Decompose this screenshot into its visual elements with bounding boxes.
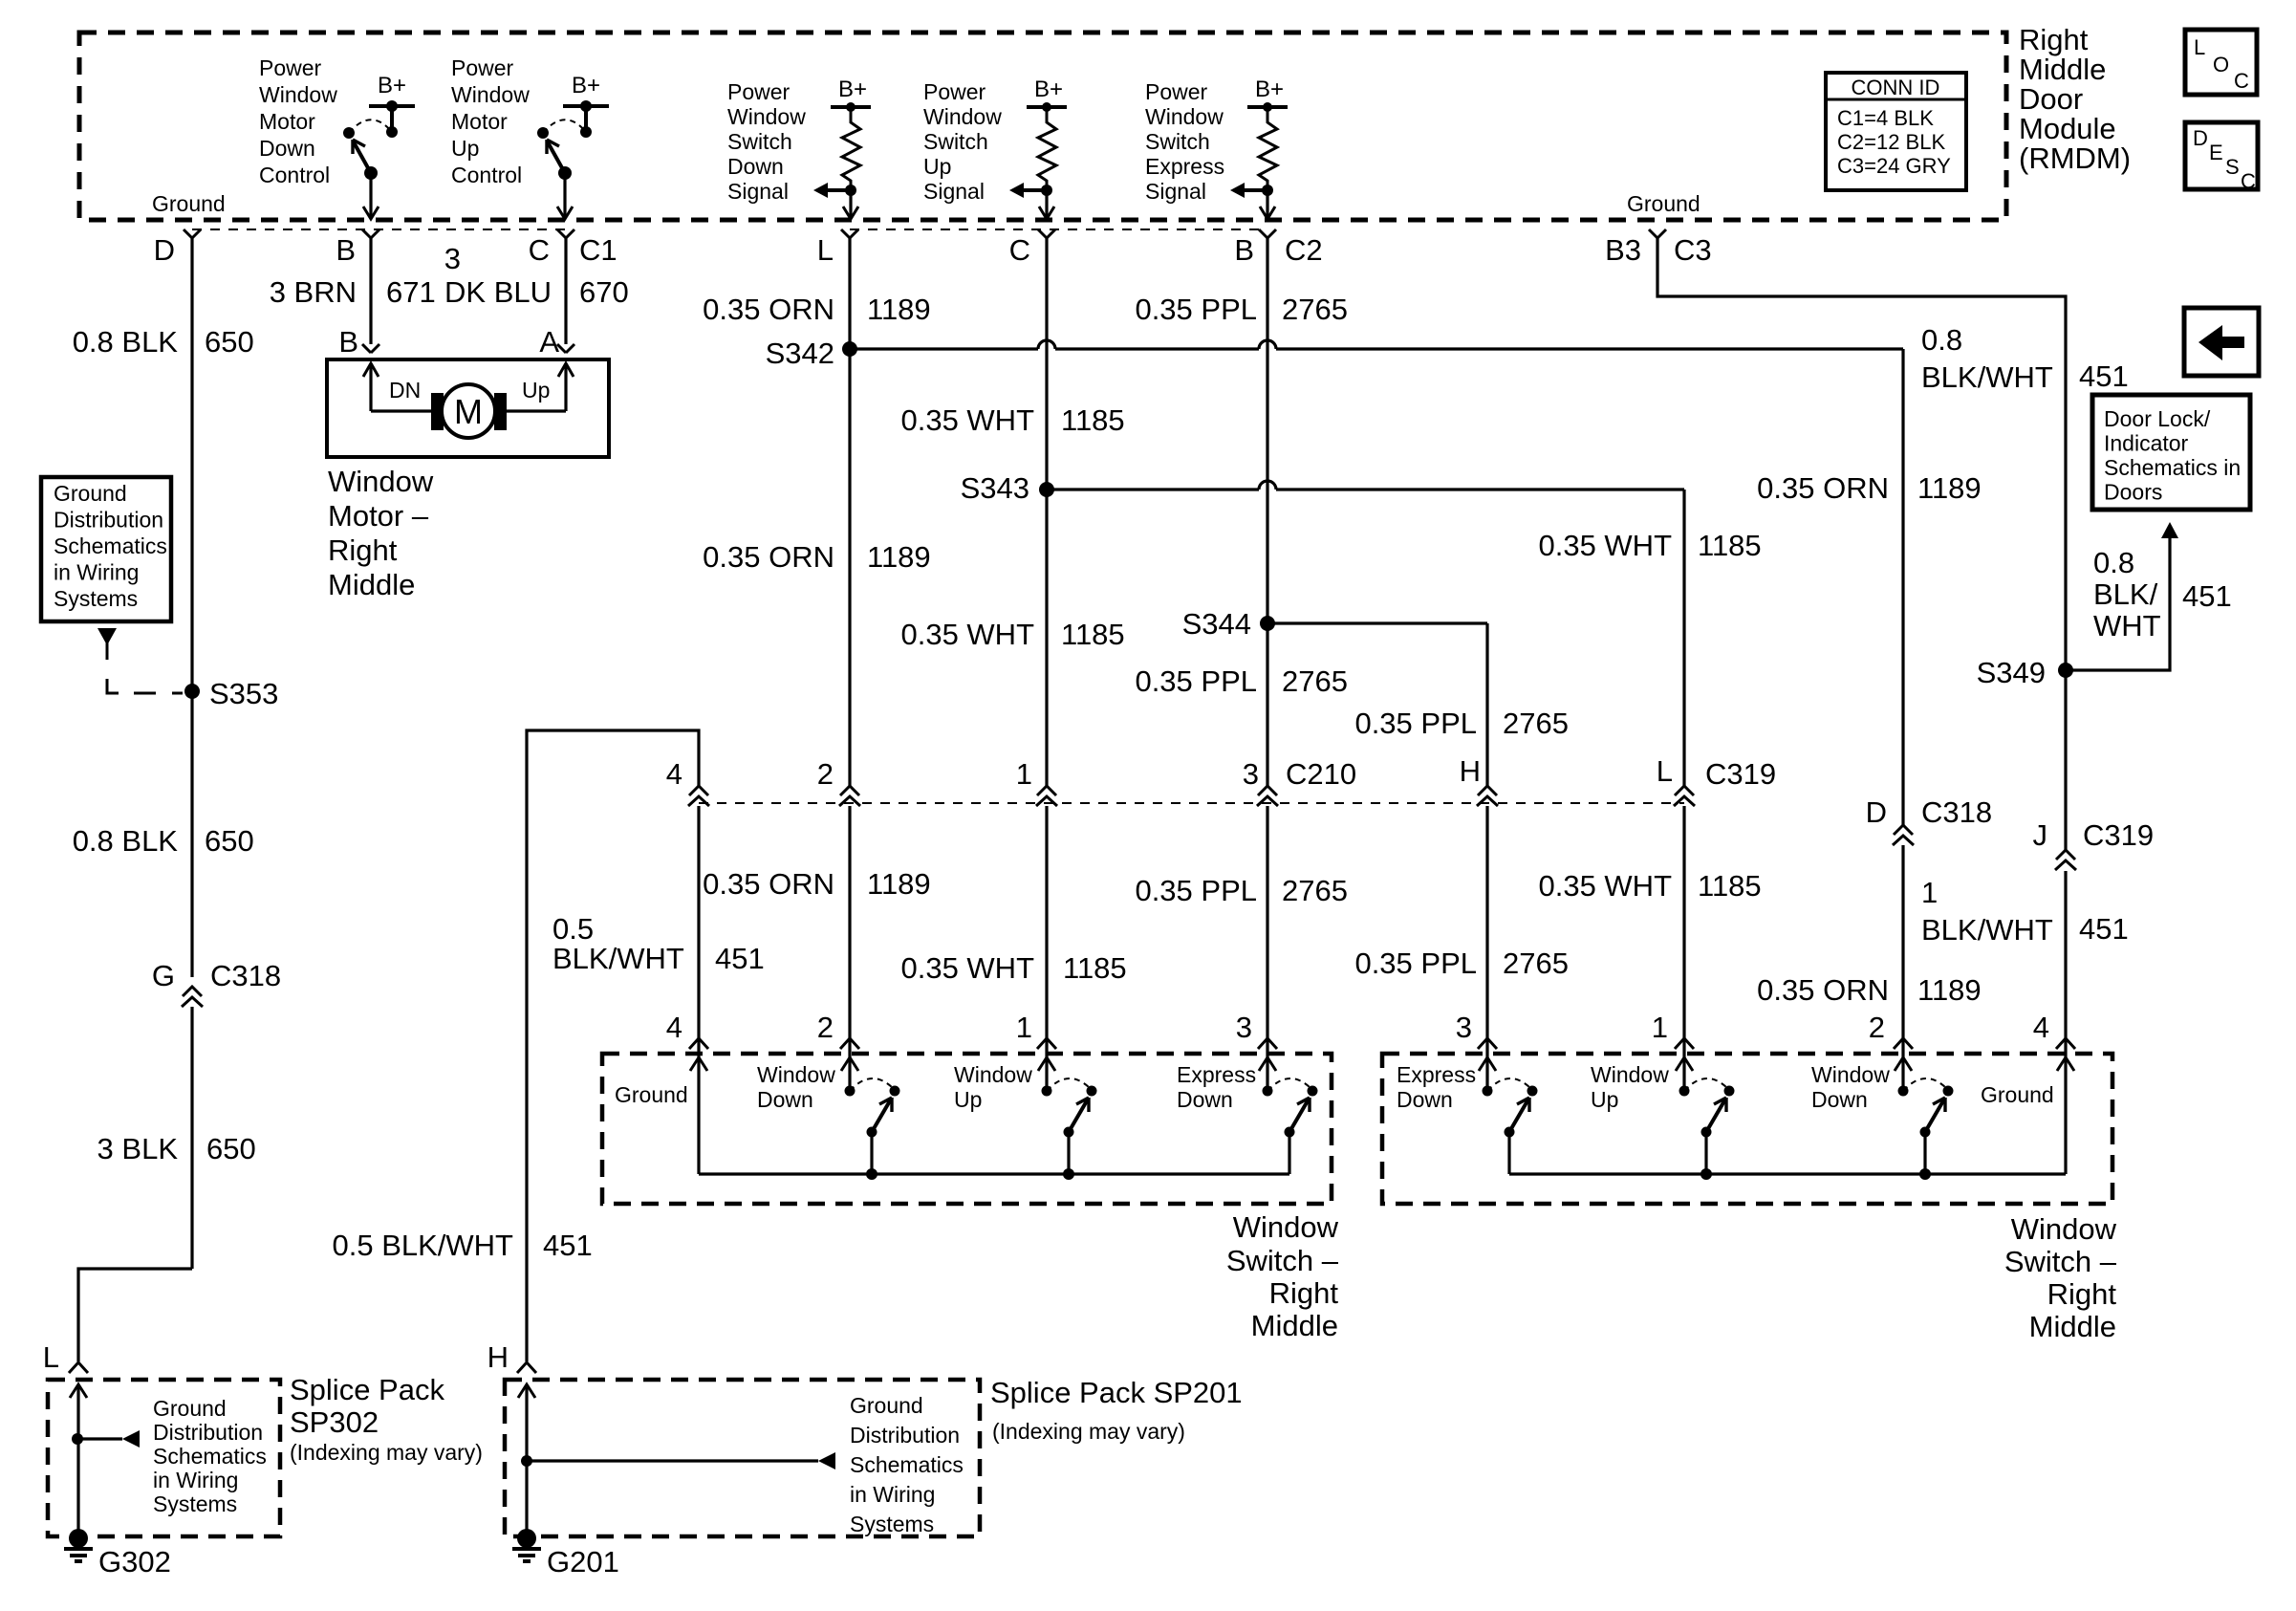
wire L C319 lower xyxy=(1682,806,1685,1061)
svg-text:0.35 WHT: 0.35 WHT xyxy=(1538,869,1672,903)
svg-text:Right: Right xyxy=(2019,23,2089,56)
svg-text:0.8: 0.8 xyxy=(2093,546,2134,579)
pin H of C319 xyxy=(1460,754,1498,806)
wire L C319 1185 xyxy=(1682,490,1685,786)
svg-text:Ground: Ground xyxy=(1981,1082,2054,1107)
motor internal wiring xyxy=(363,363,574,411)
svg-text:4: 4 xyxy=(2033,1011,2049,1044)
wire S344 branch xyxy=(1267,621,1487,624)
pin L of C2 xyxy=(817,229,858,267)
svg-text:Schematics: Schematics xyxy=(850,1452,964,1477)
svg-text:1185: 1185 xyxy=(1063,951,1127,985)
label 0.35 ORN 1189 (row C) xyxy=(703,540,931,574)
svg-text:C: C xyxy=(529,233,550,267)
svg-text:2765: 2765 xyxy=(1282,664,1348,698)
svg-text:451: 451 xyxy=(543,1229,593,1262)
svg-text:Window: Window xyxy=(1145,104,1224,129)
svg-text:Window: Window xyxy=(2011,1212,2117,1246)
svg-text:Window: Window xyxy=(1591,1062,1669,1087)
wire 451 left lower xyxy=(697,806,700,1061)
svg-text:Express: Express xyxy=(1145,154,1224,179)
svg-text:1189: 1189 xyxy=(1917,973,1982,1007)
label Ground (right) xyxy=(1627,191,1700,216)
svg-text:2: 2 xyxy=(817,1011,834,1044)
svg-text:0.35 WHT: 0.35 WHT xyxy=(900,951,1034,985)
pin 2 of C210 xyxy=(817,757,860,806)
svg-text:C319: C319 xyxy=(2083,818,2154,852)
svg-text:Control: Control xyxy=(451,163,522,187)
svg-text:C2: C2 xyxy=(1285,233,1323,267)
svg-text:C: C xyxy=(1009,233,1030,267)
svg-text:0.35 PPL: 0.35 PPL xyxy=(1135,293,1257,326)
svg-text:Systems: Systems xyxy=(850,1512,934,1536)
label 0.8 BLK 650 (upper) xyxy=(73,325,254,359)
svg-text:Signal: Signal xyxy=(923,179,985,204)
switch Express Down (right box) xyxy=(1479,1057,1538,1174)
switch SW1 Power Window Motor Down Control xyxy=(343,73,415,219)
window motor box xyxy=(327,359,609,457)
svg-text:C210: C210 xyxy=(1286,757,1356,791)
wire D C318 lower xyxy=(1901,845,1904,1061)
svg-text:Schematics: Schematics xyxy=(153,1444,267,1469)
svg-text:1185: 1185 xyxy=(1061,618,1125,651)
wire B 2765 lower xyxy=(1266,806,1268,1061)
svg-text:0.35 PPL: 0.35 PPL xyxy=(1354,707,1477,740)
label Right Middle Door Module (RMDM) xyxy=(2019,23,2131,175)
label Window Down (left box) xyxy=(757,1062,835,1112)
label Express Down (left box) xyxy=(1177,1062,1256,1112)
connector J C319 xyxy=(2033,818,2155,870)
pin 3 of window switch right xyxy=(1456,1011,1497,1049)
svg-text:1185: 1185 xyxy=(1698,869,1762,903)
label Window Switch - Right Middle (right) xyxy=(2004,1212,2117,1343)
svg-text:Ground: Ground xyxy=(850,1393,923,1418)
wire C 1185 upper xyxy=(1045,238,1048,786)
svg-text:Ground: Ground xyxy=(153,1396,227,1421)
svg-text:BLK/WHT: BLK/WHT xyxy=(1921,360,2053,394)
CONN ID table xyxy=(1826,73,1966,190)
svg-text:Down: Down xyxy=(1811,1087,1868,1112)
svg-text:BLK/: BLK/ xyxy=(2093,577,2158,611)
label 0.35 WHT 1185 (row D) xyxy=(900,618,1124,651)
label Up xyxy=(522,378,550,403)
svg-text:L: L xyxy=(2194,35,2205,59)
svg-text:M: M xyxy=(454,392,483,431)
svg-text:B: B xyxy=(338,325,358,359)
svg-text:D: D xyxy=(2193,126,2208,150)
svg-text:Motor: Motor xyxy=(451,109,508,134)
pin B3 of C3 xyxy=(1605,229,1712,267)
node S343 xyxy=(961,471,1054,505)
svg-text:3: 3 xyxy=(444,242,461,275)
label 0.35 ORN 1189 (row A) xyxy=(703,293,931,326)
pin A of motor xyxy=(539,325,574,359)
wire L 1189 lower xyxy=(848,806,851,1061)
svg-text:C318: C318 xyxy=(210,959,281,992)
svg-text:in Wiring: in Wiring xyxy=(850,1482,935,1507)
svg-text:0.8: 0.8 xyxy=(1921,323,1962,357)
svg-text:Indicator: Indicator xyxy=(2104,431,2189,456)
svg-text:Right: Right xyxy=(1269,1276,1339,1310)
svg-text:650: 650 xyxy=(205,824,254,858)
bus wire (left box) xyxy=(699,1172,1289,1175)
svg-text:Schematics: Schematics xyxy=(54,533,167,558)
svg-text:Switch –: Switch – xyxy=(1226,1244,1339,1277)
svg-text:0.35 WHT: 0.35 WHT xyxy=(900,403,1034,437)
svg-text:3: 3 xyxy=(1456,1011,1472,1044)
dashed reference line to S353 xyxy=(107,642,183,693)
switch Window Down (right box) xyxy=(1895,1057,1954,1180)
svg-text:Window: Window xyxy=(1233,1210,1339,1244)
svg-text:650: 650 xyxy=(205,325,254,359)
svg-text:0.35 PPL: 0.35 PPL xyxy=(1135,664,1257,698)
svg-text:B+: B+ xyxy=(378,73,406,98)
svg-text:Up: Up xyxy=(1591,1087,1618,1112)
svg-text:Switch: Switch xyxy=(923,129,988,154)
svg-text:G201: G201 xyxy=(547,1545,619,1578)
Splice Pack SP201 box xyxy=(505,1380,980,1536)
node S342 xyxy=(766,337,857,370)
label 0.35 ORN 1189 (right upper) xyxy=(1757,471,1982,505)
svg-text:2: 2 xyxy=(817,757,834,791)
label DN xyxy=(389,378,421,403)
pin L of C319 xyxy=(1657,754,1776,806)
svg-text:DK BLU: DK BLU xyxy=(444,275,552,309)
svg-text:3: 3 xyxy=(1243,757,1259,791)
Door Lock Indicator Schematics box xyxy=(2092,395,2250,510)
label Power Window Switch Express Signal xyxy=(1145,79,1224,204)
label Window Up (left box) xyxy=(954,1062,1032,1112)
ground pin arrow (left box) xyxy=(690,1057,707,1174)
svg-text:Motor –: Motor – xyxy=(328,499,429,533)
svg-text:0.35 ORN: 0.35 ORN xyxy=(703,293,834,326)
wire S349 branch to door lock xyxy=(2066,534,2170,670)
pin 3 of C210 xyxy=(1243,757,1356,806)
connector row thin dashed C210/C319 xyxy=(699,802,1684,804)
svg-text:1185: 1185 xyxy=(1061,403,1125,437)
svg-text:C3: C3 xyxy=(1674,233,1712,267)
junction dot SP201 xyxy=(521,1452,835,1469)
wire L 1189 upper xyxy=(848,238,851,786)
svg-text:Power: Power xyxy=(727,79,791,104)
svg-text:Down: Down xyxy=(259,136,315,161)
wire H 2765 xyxy=(1485,623,1488,786)
pin 3 of window switch xyxy=(1236,1011,1277,1049)
pin 1 of window switch right xyxy=(1652,1011,1694,1049)
label Window Switch - Right Middle (left) xyxy=(1226,1210,1339,1342)
wire D ground lower xyxy=(190,1007,193,1269)
Window Switch Right Middle box (left) xyxy=(602,1054,1332,1204)
svg-text:Module: Module xyxy=(2019,112,2116,145)
svg-text:Signal: Signal xyxy=(1145,179,1206,204)
label Power Window Switch Down Signal xyxy=(727,79,806,204)
svg-text:Control: Control xyxy=(259,163,330,187)
label Ground (right box) xyxy=(1981,1082,2054,1107)
bus wire (right box) xyxy=(1509,1172,2066,1175)
svg-text:Ground: Ground xyxy=(54,481,127,506)
svg-text:C318: C318 xyxy=(1921,795,1992,829)
svg-text:2765: 2765 xyxy=(1503,947,1569,980)
junction dot SP302 xyxy=(72,1430,140,1448)
switch Express Down (left box) xyxy=(1259,1057,1318,1174)
svg-text:BLK/WHT: BLK/WHT xyxy=(552,942,684,975)
label 0.35 WHT 1185 (row B) xyxy=(900,403,1124,437)
svg-text:S349: S349 xyxy=(1977,656,2046,689)
svg-text:WHT: WHT xyxy=(2093,609,2161,642)
label Power Window Switch Up Signal xyxy=(923,79,1002,204)
label Ground Distribution Schematics in SP201 xyxy=(850,1393,964,1536)
svg-text:C1: C1 xyxy=(579,233,617,267)
switch Window Down (left box) xyxy=(841,1057,900,1180)
pin D of C1 xyxy=(154,229,201,267)
wire H 2765 lower xyxy=(1485,806,1488,1061)
svg-text:0.8 BLK: 0.8 BLK xyxy=(73,325,179,359)
svg-text:H: H xyxy=(1460,754,1481,788)
svg-text:S: S xyxy=(2225,155,2240,179)
wire inside SP302 xyxy=(70,1384,87,1538)
label Ground (left box) xyxy=(615,1082,688,1107)
svg-text:S342: S342 xyxy=(766,337,834,370)
svg-text:H: H xyxy=(487,1340,509,1374)
svg-text:0.8 BLK: 0.8 BLK xyxy=(73,824,179,858)
svg-text:1: 1 xyxy=(1652,1011,1668,1044)
label 0.35 PPL 2765 (row F) xyxy=(1135,874,1348,907)
label 0.35 PPL 2765 (H upper) xyxy=(1354,707,1569,740)
connector D C318 xyxy=(1866,795,1993,845)
wire D C318 1189 xyxy=(1901,349,1904,825)
svg-text:Switch –: Switch – xyxy=(2004,1245,2117,1278)
svg-text:Middle: Middle xyxy=(1251,1309,1338,1342)
svg-text:B+: B+ xyxy=(1255,76,1284,102)
svg-text:(RMDM): (RMDM) xyxy=(2019,142,2131,175)
svg-text:B+: B+ xyxy=(1034,76,1063,102)
svg-text:Window: Window xyxy=(1811,1062,1890,1087)
svg-text:B+: B+ xyxy=(838,76,867,102)
svg-text:Door Lock/: Door Lock/ xyxy=(2104,406,2211,431)
svg-text:Window: Window xyxy=(259,82,337,107)
svg-text:Down: Down xyxy=(1177,1087,1233,1112)
label Window Motor - Right Middle xyxy=(328,465,434,601)
Ground Distribution Schematics box (top left) xyxy=(41,477,171,621)
svg-text:Ground: Ground xyxy=(152,191,226,216)
pin 2 of window switch right xyxy=(1869,1011,1913,1049)
svg-text:Window: Window xyxy=(727,104,806,129)
Splice Pack SP302 box xyxy=(48,1380,280,1536)
svg-text:Window: Window xyxy=(954,1062,1032,1087)
label Ground (left) xyxy=(152,191,226,216)
label Splice Pack SP201 xyxy=(990,1376,1243,1444)
label 3 BLK 650 xyxy=(97,1132,256,1165)
svg-text:C: C xyxy=(2234,69,2249,93)
svg-text:Down: Down xyxy=(757,1087,813,1112)
svg-text:E: E xyxy=(2209,141,2223,164)
svg-text:D: D xyxy=(154,233,175,267)
svg-text:SP302: SP302 xyxy=(290,1405,379,1439)
label 0.35 PPL 2765 (H lower) xyxy=(1354,947,1569,980)
svg-text:in Wiring: in Wiring xyxy=(54,560,139,585)
wire inside SP201 xyxy=(518,1384,535,1538)
wire B 2765 upper xyxy=(1266,238,1268,786)
switch Window Up (right box) xyxy=(1676,1057,1735,1180)
svg-text:Door: Door xyxy=(2019,82,2083,116)
label 0.35 ORN 1189 (row F) xyxy=(703,867,931,901)
svg-text:J: J xyxy=(2033,818,2048,852)
label 3 BRN 671 xyxy=(270,275,436,309)
reference triangle below box xyxy=(97,628,117,645)
svg-text:Right: Right xyxy=(328,533,398,567)
svg-text:(Indexing may vary): (Indexing may vary) xyxy=(992,1419,1185,1444)
pin 1 of C210 xyxy=(1016,757,1057,806)
svg-text:B: B xyxy=(336,233,356,267)
svg-text:Signal: Signal xyxy=(727,179,789,204)
svg-text:DN: DN xyxy=(389,378,421,403)
svg-text:0.35 PPL: 0.35 PPL xyxy=(1354,947,1477,980)
svg-text:1189: 1189 xyxy=(867,293,931,326)
svg-text:451: 451 xyxy=(2079,359,2129,393)
node S344 xyxy=(1182,607,1275,641)
svg-text:0.35 PPL: 0.35 PPL xyxy=(1135,874,1257,907)
svg-text:1: 1 xyxy=(1921,876,1938,909)
svg-text:Systems: Systems xyxy=(54,586,138,611)
pin 4 of window switch xyxy=(666,1011,708,1049)
label 0.35 WHT 1185 (row F) xyxy=(900,951,1126,985)
svg-text:1: 1 xyxy=(1016,1011,1032,1044)
svg-text:0.5: 0.5 xyxy=(552,912,594,946)
svg-text:0.35 ORN: 0.35 ORN xyxy=(1757,973,1889,1007)
svg-text:C3=24 GRY: C3=24 GRY xyxy=(1837,154,1951,178)
back-arrow icon box xyxy=(2184,308,2259,376)
pin B of motor xyxy=(338,325,379,359)
label Splice Pack SP302 xyxy=(290,1373,483,1465)
svg-text:A: A xyxy=(539,325,559,359)
svg-text:3 BLK: 3 BLK xyxy=(97,1132,179,1165)
label Window Up (right box) xyxy=(1591,1062,1669,1112)
svg-text:671: 671 xyxy=(386,275,436,309)
pin C of C1 xyxy=(529,229,617,267)
svg-text:1189: 1189 xyxy=(1917,471,1982,505)
svg-text:Down: Down xyxy=(1397,1087,1453,1112)
ground pin arrow (right box) xyxy=(2057,1057,2074,1174)
ground G201 xyxy=(512,1529,619,1578)
motor M1 Window Motor xyxy=(431,384,507,438)
svg-text:Middle: Middle xyxy=(2029,1310,2116,1343)
switch Window Up (left box) xyxy=(1038,1057,1097,1180)
wire 670 to motor xyxy=(564,238,567,344)
svg-text:Down: Down xyxy=(727,154,784,179)
label Power Window Motor Up Control xyxy=(451,55,530,187)
connector row thin dashed C1 xyxy=(192,229,566,230)
label 1 BLK/WHT 451 xyxy=(1921,876,2129,947)
svg-text:Up: Up xyxy=(522,378,550,403)
wire 451 to switch xyxy=(2064,871,2067,1061)
svg-text:Window: Window xyxy=(328,465,434,498)
svg-text:G302: G302 xyxy=(98,1545,171,1578)
node S353 xyxy=(184,677,278,710)
LOC box xyxy=(2185,30,2257,95)
label 3 DK BLU 670 xyxy=(444,242,629,309)
svg-text:Switch: Switch xyxy=(1145,129,1210,154)
svg-text:650: 650 xyxy=(206,1132,256,1165)
svg-text:451: 451 xyxy=(2079,912,2129,946)
svg-text:L: L xyxy=(817,233,834,267)
svg-text:Distribution: Distribution xyxy=(153,1420,263,1445)
svg-text:Systems: Systems xyxy=(153,1491,237,1516)
svg-text:Up: Up xyxy=(923,154,951,179)
pin B of C1 xyxy=(336,229,379,267)
svg-text:C2=12 BLK: C2=12 BLK xyxy=(1837,130,1945,154)
svg-text:1189: 1189 xyxy=(867,867,931,901)
svg-text:3 BRN: 3 BRN xyxy=(270,275,357,309)
label Ground Distribution Schematics in SP302 xyxy=(153,1396,267,1516)
pin C of C2 xyxy=(1009,229,1055,267)
Window Switch Right Middle box (right) xyxy=(1382,1054,2112,1204)
svg-text:Power: Power xyxy=(923,79,986,104)
svg-text:0.35 WHT: 0.35 WHT xyxy=(1538,529,1672,562)
svg-text:2: 2 xyxy=(1869,1011,1885,1044)
svg-text:S344: S344 xyxy=(1182,607,1251,641)
connector G C318 xyxy=(152,959,281,1007)
svg-text:Doors: Doors xyxy=(2104,480,2162,505)
svg-text:Distribution: Distribution xyxy=(54,508,163,533)
pin H of SP201 xyxy=(487,1340,536,1374)
label 0.35 PPL 2765 (row E) xyxy=(1135,664,1348,698)
svg-text:Up: Up xyxy=(451,136,479,161)
connector row thin dashed C2 xyxy=(850,229,1267,230)
svg-text:C1=4 BLK: C1=4 BLK xyxy=(1837,106,1934,130)
svg-text:Distribution: Distribution xyxy=(850,1423,960,1448)
svg-text:1189: 1189 xyxy=(867,540,931,574)
svg-text:(Indexing may vary): (Indexing may vary) xyxy=(290,1440,483,1465)
label 0.35 WHT 1185 (lower) xyxy=(1538,869,1761,903)
svg-text:CONN ID: CONN ID xyxy=(1852,76,1940,99)
svg-text:O: O xyxy=(2213,53,2229,76)
svg-text:Middle: Middle xyxy=(328,568,415,601)
label 0.35 ORN ... none; 0.5 BLK/WHT 451 (two line) xyxy=(552,912,765,975)
resistor R3 Express Signal pull-up xyxy=(1230,76,1288,219)
svg-text:2765: 2765 xyxy=(1282,293,1348,326)
svg-text:0.5 BLK/WHT: 0.5 BLK/WHT xyxy=(333,1229,514,1262)
arrow to door lock schematic xyxy=(2161,522,2178,538)
svg-text:Ground: Ground xyxy=(1627,191,1700,216)
svg-text:Power: Power xyxy=(451,55,514,80)
label Window Down (right box) xyxy=(1811,1062,1890,1112)
svg-text:1: 1 xyxy=(1016,757,1032,791)
wire D ground upper xyxy=(190,238,193,977)
pin 4 of window switch right xyxy=(2033,1011,2075,1049)
DESC box xyxy=(2185,122,2258,193)
label 0.35 WHT 1185 (upper) xyxy=(1538,529,1761,562)
svg-text:in Wiring: in Wiring xyxy=(153,1468,238,1492)
svg-text:Power: Power xyxy=(1145,79,1208,104)
wire 451 left upper xyxy=(527,730,699,1361)
pin B of C2 xyxy=(1234,229,1322,267)
label Express Down (right box) xyxy=(1397,1062,1476,1112)
svg-text:S353: S353 xyxy=(209,677,278,710)
svg-text:2765: 2765 xyxy=(1503,707,1569,740)
svg-text:4: 4 xyxy=(666,1011,682,1044)
svg-text:1185: 1185 xyxy=(1698,529,1762,562)
pin L of SP302 xyxy=(43,1340,88,1374)
node S349 xyxy=(1977,656,2073,689)
resistor R2 Up Signal pull-up xyxy=(1009,76,1067,219)
svg-text:451: 451 xyxy=(715,942,765,975)
svg-text:Splice Pack: Splice Pack xyxy=(290,1373,444,1406)
wire C 1185 lower xyxy=(1045,806,1048,1061)
svg-text:G: G xyxy=(152,959,175,992)
ground G302 xyxy=(64,1529,171,1578)
svg-text:BLK/WHT: BLK/WHT xyxy=(1921,913,2053,947)
svg-text:451: 451 xyxy=(2182,579,2232,613)
